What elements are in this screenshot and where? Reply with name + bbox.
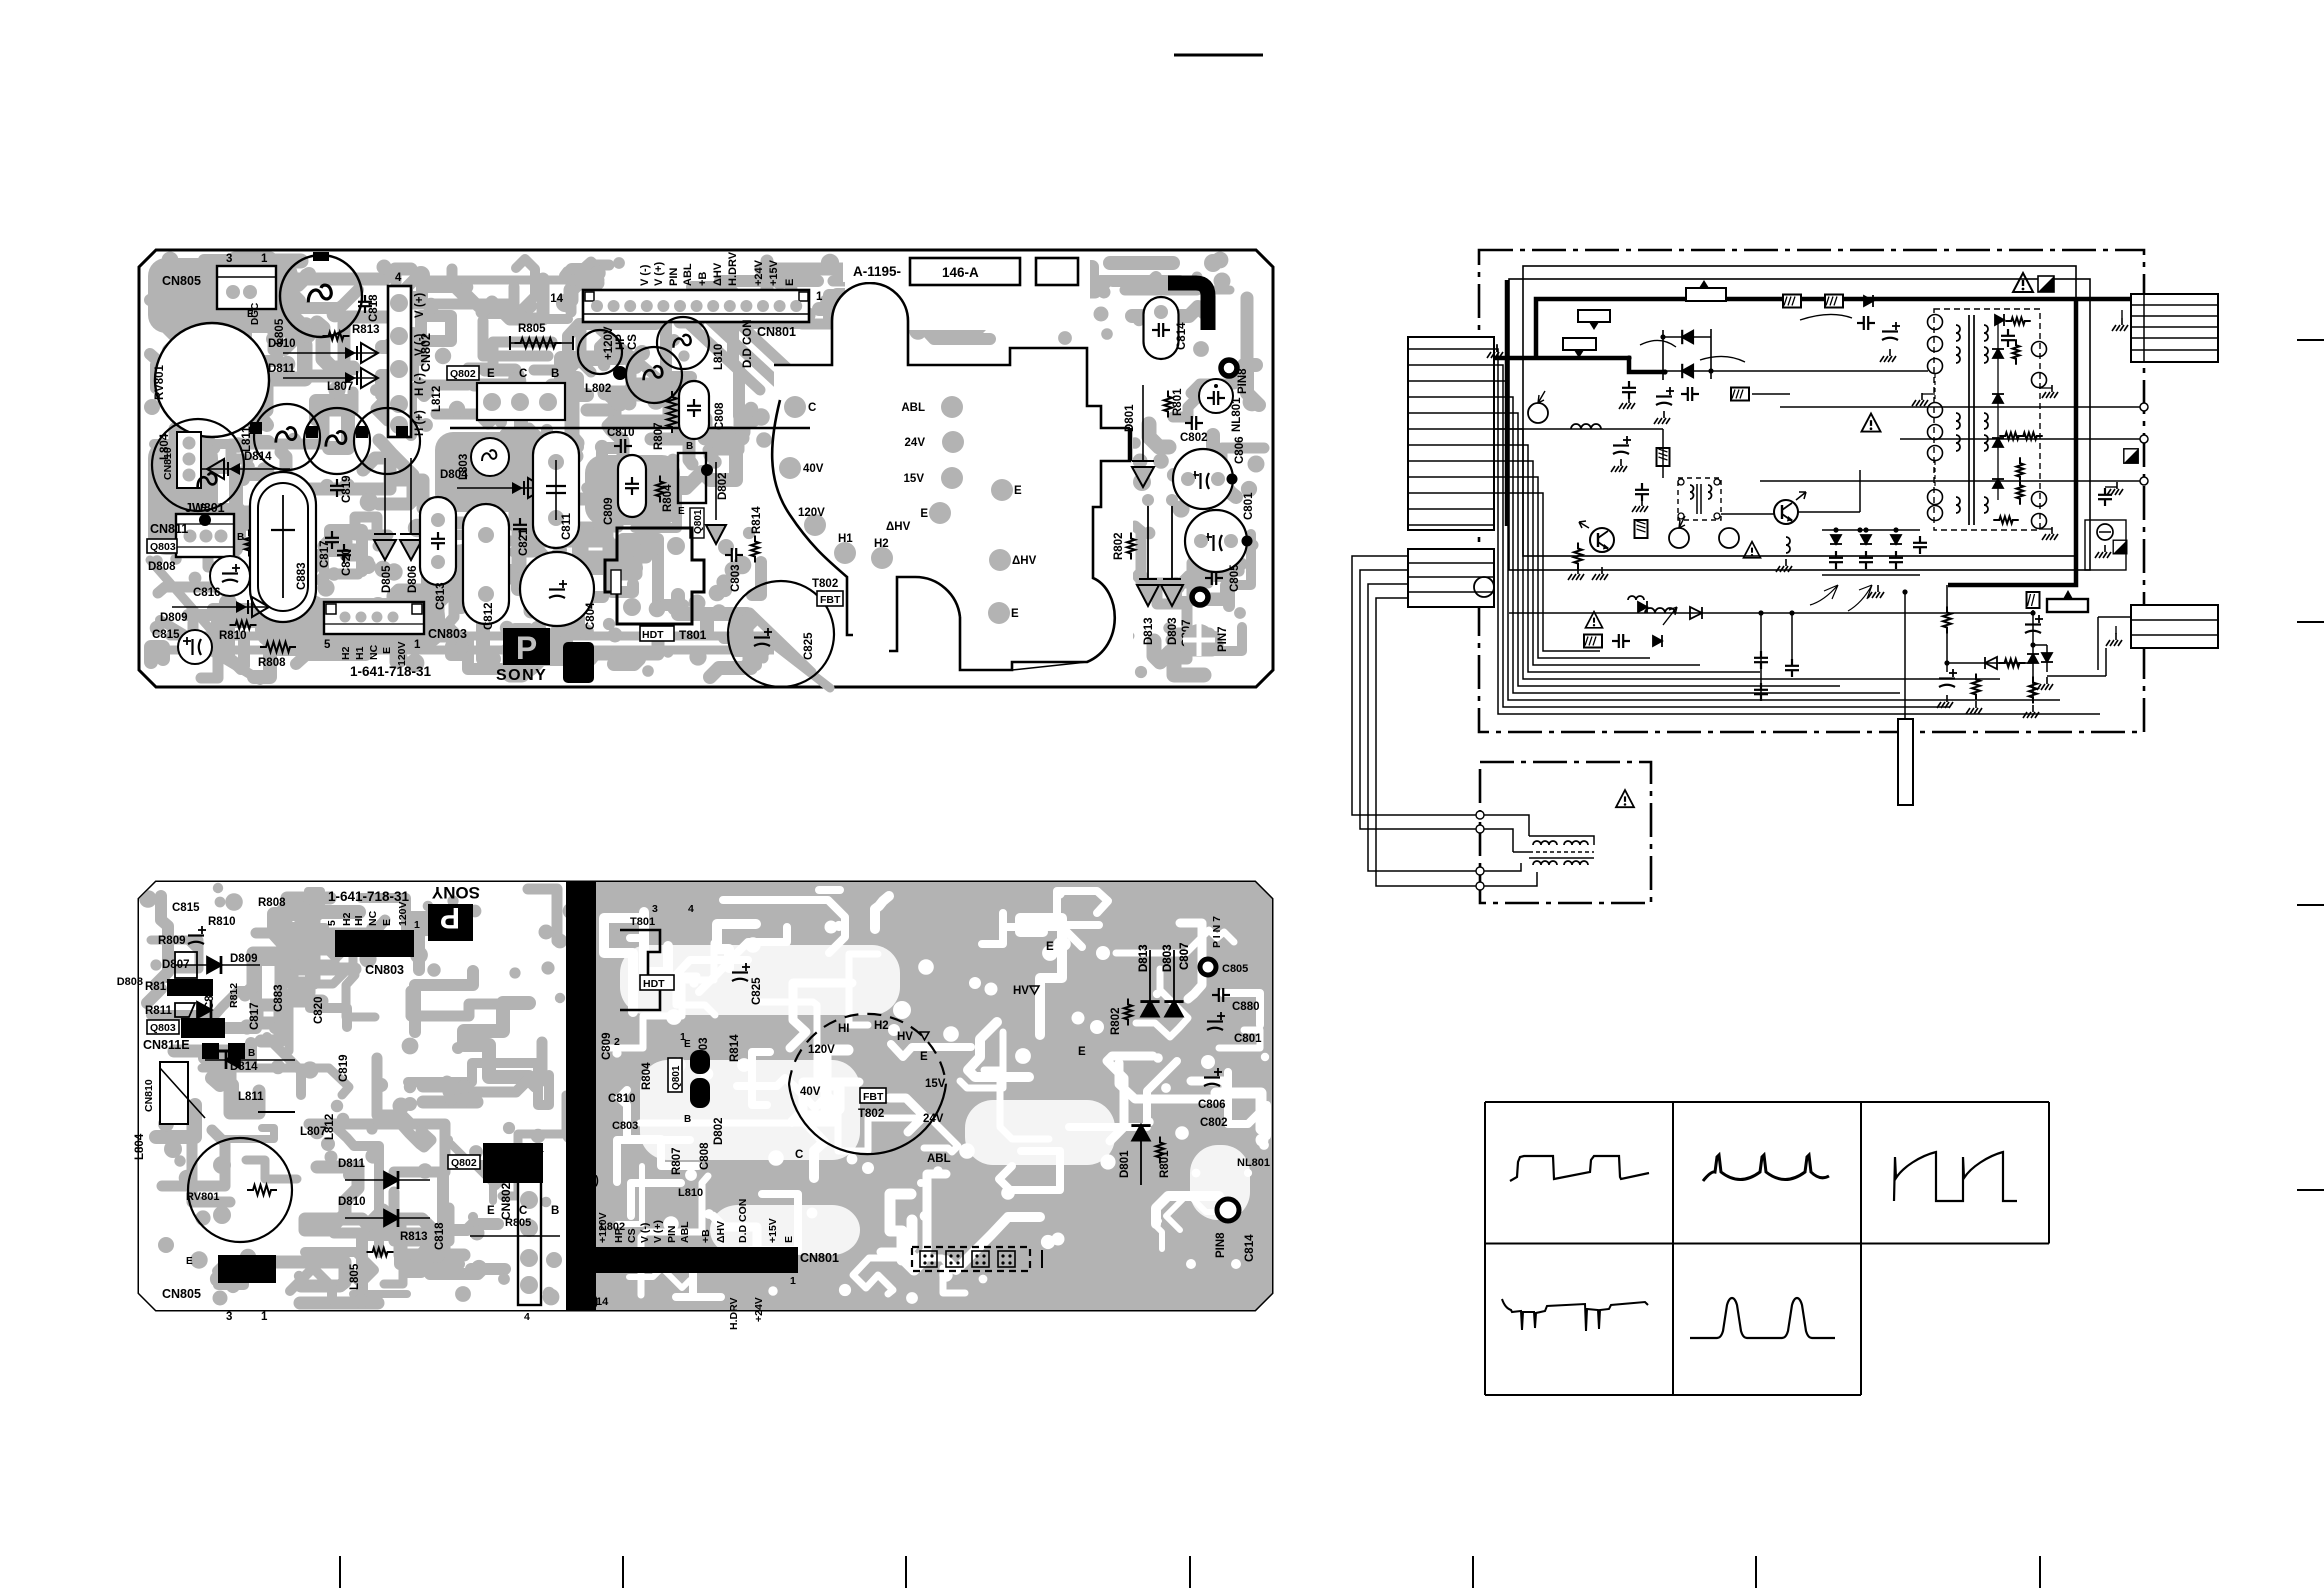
capacitor C802: [1185, 416, 1203, 430]
black isolation bar: [566, 882, 596, 1310]
svg-text:R802: R802: [1113, 533, 1125, 561]
svg-text:C806: C806: [1198, 1099, 1226, 1111]
svg-text:120V: 120V: [397, 901, 409, 926]
svg-text:R807: R807: [671, 1148, 683, 1176]
svg-text:120V: 120V: [808, 1044, 835, 1056]
svg-text:T801: T801: [679, 628, 707, 642]
schematic boundary (dash-dot): [1479, 250, 2144, 732]
svg-text:CN801: CN801: [757, 325, 796, 339]
svg-text:E: E: [920, 508, 928, 520]
warning triangles & service flags: [1862, 414, 1881, 432]
svg-text:C883: C883: [296, 563, 308, 591]
PIN7 eyelet: [1192, 589, 1208, 605]
resistor R807: [667, 391, 677, 433]
transformer T801 heat sink: [605, 528, 704, 624]
svg-text:D813: D813: [1143, 618, 1155, 646]
svg-text:B: B: [248, 1048, 255, 1059]
capacitor C809: [618, 455, 646, 517]
svg-text:C817: C817: [249, 1003, 261, 1031]
svg-text:C805: C805: [1229, 564, 1241, 592]
copper trace pattern: [144, 252, 1265, 680]
capacitor C816: [210, 556, 250, 596]
svg-text:C819: C819: [341, 476, 353, 504]
svg-text:CN811: CN811: [150, 522, 188, 536]
svg-text:HDT: HDT: [643, 978, 665, 990]
svg-text:120V: 120V: [396, 641, 408, 666]
CN805 mirrored: [218, 1255, 276, 1283]
svg-text:L802: L802: [600, 1221, 625, 1233]
svg-text:L807: L807: [327, 381, 353, 393]
svg-text:1: 1: [261, 253, 268, 265]
PCB board solder side: [139, 882, 1272, 1310]
svg-text:3: 3: [652, 903, 658, 915]
capacitor C806: [1173, 449, 1233, 509]
svg-text:C820: C820: [341, 549, 353, 577]
svg-text:C813: C813: [435, 583, 447, 611]
top registration line: [1174, 54, 1263, 57]
svg-text:ΔHV: ΔHV: [886, 521, 911, 533]
svg-text:C815: C815: [172, 902, 200, 914]
bridge diodes: [1663, 329, 1711, 380]
svg-text:CN810: CN810: [143, 1079, 155, 1112]
svg-text:D805: D805: [381, 565, 393, 593]
svg-text:NC: NC: [367, 910, 379, 926]
bottom registration ticks: [339, 1556, 341, 1588]
svg-text:C801: C801: [1234, 1033, 1262, 1045]
svg-text:R805: R805: [518, 323, 546, 335]
svg-text:Q801: Q801: [671, 1065, 682, 1090]
capacitor C804: [520, 552, 594, 626]
svg-text:5: 5: [326, 920, 338, 926]
svg-text:H (-): H (-): [414, 373, 426, 396]
svg-text:R814: R814: [751, 506, 763, 534]
svg-text:D803: D803: [1167, 618, 1179, 646]
connector CN803: [324, 602, 424, 634]
svg-text:V (-): V (-): [573, 1259, 596, 1271]
svg-text:4: 4: [524, 1311, 530, 1323]
svg-text:L812: L812: [324, 1114, 336, 1140]
svg-text:C802: C802: [1180, 432, 1208, 444]
svg-text:ΔHV: ΔHV: [1012, 555, 1037, 567]
svg-text:C808: C808: [714, 402, 726, 430]
capacitor C803: [725, 548, 743, 562]
resistor R808: [260, 642, 296, 652]
svg-text:D808: D808: [117, 976, 143, 988]
svg-text:D808: D808: [148, 561, 176, 573]
connector ladder 2: [1408, 549, 1494, 607]
waveform 4: flyback pulse (negative): [1502, 1299, 1648, 1331]
svg-text:C: C: [519, 368, 527, 380]
svg-text:FBT: FBT: [820, 594, 841, 606]
svg-text:D811: D811: [268, 363, 295, 375]
svg-text:C811: C811: [561, 513, 573, 540]
svg-text:HI: HI: [353, 915, 365, 926]
capacitor C821: [513, 518, 527, 536]
svg-text:C: C: [795, 1149, 803, 1161]
secondary windings & rectifiers: [1984, 325, 1988, 341]
svg-text:2: 2: [614, 1036, 620, 1048]
resistor R804: [656, 476, 664, 503]
B+ adjust block: [2063, 590, 2073, 599]
svg-text:CS: CS: [626, 1228, 638, 1243]
svg-text:24V: 24V: [905, 437, 926, 449]
svg-text:R808: R808: [258, 897, 286, 909]
svg-text:B: B: [684, 1114, 691, 1125]
svg-text:15V: 15V: [904, 473, 925, 485]
transistor Q801: [678, 453, 706, 503]
svg-text:E: E: [381, 919, 393, 926]
svg-text:R810: R810: [208, 916, 236, 928]
svg-text:H2: H2: [874, 1020, 889, 1032]
svg-text:CN803: CN803: [365, 963, 404, 977]
svg-text:V (+): V (+): [652, 1220, 664, 1243]
svg-text:E: E: [1046, 941, 1054, 953]
connector CN801: [583, 290, 809, 322]
svg-text:V (-): V (-): [414, 333, 426, 356]
svg-text:L804: L804: [134, 1133, 146, 1160]
svg-text:1: 1: [414, 639, 421, 651]
svg-text:R804: R804: [662, 484, 674, 512]
svg-text:+15V: +15V: [767, 1218, 779, 1243]
svg-text:D801: D801: [1119, 1150, 1131, 1178]
svg-text:146-A: 146-A: [942, 265, 979, 280]
svg-text:R805: R805: [505, 1217, 531, 1229]
svg-text:C810: C810: [607, 427, 635, 439]
svg-text:H2: H2: [340, 646, 352, 660]
black module: [563, 642, 594, 683]
resistor R805: [515, 338, 562, 348]
svg-text:L811: L811: [241, 426, 253, 452]
svg-text:E: E: [487, 368, 495, 380]
svg-text:+15V: +15V: [768, 259, 780, 286]
svg-text:CN802: CN802: [499, 1182, 513, 1220]
waveform table grid: [1485, 1102, 2049, 1395]
svg-text:NL801: NL801: [1231, 397, 1243, 432]
svg-text:L810: L810: [678, 1187, 703, 1199]
svg-text:C802: C802: [1200, 1117, 1228, 1129]
svg-text:C803: C803: [612, 1120, 638, 1132]
PIN8 eyelet: [1221, 360, 1237, 376]
coil L802: [626, 347, 682, 403]
svg-text:R802: R802: [1110, 1008, 1122, 1036]
PCB board A-1195-146-A component side: [139, 250, 1273, 687]
svg-text:ABL: ABL: [682, 263, 694, 286]
svg-text:C807: C807: [1179, 943, 1191, 971]
Sony P logo: [503, 628, 550, 665]
svg-text:C810: C810: [608, 1093, 636, 1105]
snubber top right: [1783, 295, 1801, 308]
svg-text:1: 1: [816, 291, 823, 303]
svg-text:Q802: Q802: [451, 1157, 477, 1169]
capacitor C814: [1144, 297, 1179, 359]
svg-text:C806: C806: [1234, 437, 1246, 465]
flyback transformer outline T802: [789, 1014, 946, 1084]
svg-text:40V: 40V: [803, 463, 824, 475]
CN802 mirrored: [518, 1160, 541, 1305]
deflection yoke connector bottom: [2131, 605, 2218, 648]
svg-text:C816: C816: [193, 587, 221, 599]
svg-text:A-1195-: A-1195-: [853, 264, 901, 279]
flyback transformer clearance area: [774, 283, 1133, 683]
capacitor C818: [358, 295, 372, 313]
svg-text:R814: R814: [729, 1034, 741, 1062]
capacitor C825: [728, 581, 834, 687]
svg-text:CS: CS: [627, 334, 639, 350]
svg-text:24V: 24V: [923, 1113, 944, 1125]
capacitor C811: [533, 432, 579, 548]
svg-text:L807: L807: [300, 1126, 326, 1138]
svg-text:E: E: [1014, 485, 1022, 497]
svg-text:E: E: [784, 279, 796, 286]
svg-text:P: P: [516, 630, 537, 666]
svg-text:4: 4: [688, 903, 694, 915]
svg-text:D802: D802: [713, 1118, 725, 1146]
svg-text:C804: C804: [585, 602, 597, 630]
board id A-1195-146-A: [843, 258, 909, 282]
svg-text:PIN8: PIN8: [1215, 1232, 1227, 1258]
copper pours: [148, 258, 298, 333]
connector CN811: [176, 514, 234, 557]
svg-text:R812: R812: [228, 983, 240, 1008]
black corner trace: [1168, 283, 1208, 330]
waveform 2: ripple with retrace spikes: [1703, 1155, 1829, 1181]
transistor Q803: [147, 539, 177, 553]
svg-text:NL801: NL801: [1237, 1157, 1270, 1169]
svg-text:D804: D804: [440, 469, 468, 481]
diode D802: [715, 462, 717, 520]
svg-text:H2: H2: [341, 912, 353, 926]
capacitors C817 C820 C819: [325, 531, 339, 549]
svg-text:C803: C803: [730, 565, 742, 593]
capacitor C801: [1185, 510, 1247, 572]
CRT socket connector top: [2131, 294, 2218, 362]
svg-text:B: B: [551, 1205, 559, 1217]
svg-text:P I N 7: P I N 7: [1211, 916, 1223, 948]
FBT area outline: [772, 283, 1130, 670]
FBT pin pads and labels: [784, 396, 806, 418]
right registration ticks: [2297, 339, 2324, 341]
svg-text:C: C: [808, 402, 816, 414]
svg-text:+B: +B: [700, 1229, 712, 1243]
svg-text:C825: C825: [751, 977, 763, 1005]
main bold B+ loop: [1493, 280, 2131, 585]
svg-text:CN803: CN803: [428, 627, 467, 641]
svg-text:120V: 120V: [798, 507, 825, 519]
svg-text:C880: C880: [1232, 1001, 1260, 1013]
svg-text:R809: R809: [158, 935, 186, 947]
svg-text:R807: R807: [653, 423, 665, 451]
capacitor C815: [178, 630, 212, 664]
svg-text:E: E: [381, 647, 393, 654]
connector CN810 / jumper JW801: [152, 419, 244, 511]
svg-text:D.D CON: D.D CON: [742, 319, 754, 368]
svg-text:D813: D813: [1138, 945, 1150, 973]
svg-text:C814: C814: [1176, 322, 1188, 350]
coil L803: [471, 438, 509, 476]
svg-text:RV801: RV801: [154, 364, 166, 400]
svg-text:R810: R810: [219, 630, 247, 642]
transistor Q802: [447, 366, 479, 380]
svg-text:PIN: PIN: [666, 1225, 678, 1243]
HV check probe: [2085, 520, 2126, 570]
svg-text:E: E: [783, 1236, 795, 1243]
svg-text:L805: L805: [349, 1263, 361, 1290]
resistor R801: [1164, 391, 1172, 418]
svg-text:15V: 15V: [925, 1078, 946, 1090]
dashed connector footprint: [912, 1247, 1030, 1271]
svg-text:+24V: +24V: [753, 259, 765, 286]
svg-text:D814: D814: [244, 451, 272, 463]
diode D806: [410, 458, 412, 533]
P logo mirrored: [428, 904, 473, 941]
svg-text:V (+): V (+): [653, 262, 665, 286]
svg-text:E: E: [1011, 608, 1019, 620]
svg-text:D810: D810: [338, 1196, 366, 1208]
svg-text:H1: H1: [838, 533, 853, 545]
svg-text:HI: HI: [838, 1023, 850, 1035]
svg-text:PIN8: PIN8: [1237, 368, 1249, 394]
svg-text:L802: L802: [585, 383, 611, 395]
solder side copper: [289, 947, 384, 956]
svg-text:3: 3: [226, 253, 232, 265]
svg-text:C817: C817: [319, 541, 331, 569]
C825: [732, 963, 750, 981]
svg-text:+24V: +24V: [753, 1297, 765, 1322]
svg-text:C808: C808: [699, 1142, 711, 1170]
HV lead: [1904, 592, 1906, 719]
svg-text:E: E: [684, 1039, 691, 1050]
connector ladder CN (to main board): [1408, 337, 1494, 530]
svg-text:C819: C819: [338, 1055, 350, 1083]
svg-text:C883: C883: [273, 985, 285, 1013]
waveform 5: vertical pulse: [1690, 1298, 1835, 1338]
svg-text:RV801: RV801: [186, 1191, 219, 1203]
svg-text:C821: C821: [518, 528, 530, 556]
capacitor C812: [463, 504, 509, 624]
svg-text:HV: HV: [897, 1031, 913, 1043]
svg-text:Q803: Q803: [150, 1022, 176, 1034]
svg-text:Q801: Q801: [693, 509, 704, 534]
coil L805: [280, 255, 362, 337]
svg-text:R811: R811: [145, 1005, 172, 1017]
diode D805: [384, 458, 386, 533]
hot/cold isolation boxes: [1523, 266, 2076, 556]
svg-text:R801: R801: [1172, 388, 1184, 416]
svg-text:5: 5: [324, 639, 331, 651]
drive transformer: [1678, 478, 1721, 520]
T801 outline mirrored: [620, 930, 660, 1010]
svg-text:R813: R813: [400, 1231, 428, 1243]
svg-text:H.DRV: H.DRV: [728, 1298, 740, 1330]
svg-text:L812: L812: [431, 386, 443, 412]
filter choke: [1571, 424, 1601, 429]
svg-text:C825: C825: [803, 632, 815, 660]
svg-text:D.D CON: D.D CON: [737, 1199, 749, 1243]
svg-text:PIN: PIN: [668, 268, 680, 286]
svg-text:R804: R804: [641, 1062, 653, 1090]
svg-text:B: B: [686, 441, 693, 452]
svg-text:T802: T802: [858, 1108, 884, 1120]
posistor / degauss relay cluster: [1509, 612, 2033, 614]
svg-text:CN810: CN810: [162, 447, 174, 480]
resistor R813: [323, 332, 350, 340]
svg-text:ABL: ABL: [679, 1221, 691, 1243]
Q802 mirrored: [448, 1155, 480, 1169]
svg-text:1-641-718-31: 1-641-718-31: [350, 664, 432, 679]
fuse / relay boxes: [1686, 288, 1726, 301]
svg-text:B: B: [237, 532, 244, 543]
Q801 black: [690, 1050, 710, 1074]
svg-text:C812: C812: [483, 603, 495, 631]
svg-text:ΔHV: ΔHV: [715, 1221, 727, 1243]
svg-text:Q802: Q802: [450, 368, 476, 380]
svg-text:D809: D809: [160, 612, 188, 624]
degauss coil box: [1480, 762, 1651, 903]
svg-text:D802: D802: [717, 473, 729, 501]
capacitor C883: [250, 472, 316, 622]
caps near bridge: [1622, 381, 1636, 399]
svg-text:D810: D810: [268, 338, 296, 350]
svg-text:L810: L810: [713, 344, 725, 370]
svg-text:3: 3: [226, 1311, 232, 1323]
degauss harness: [1352, 556, 1480, 886]
svg-text:14: 14: [550, 293, 563, 305]
RV801: [188, 1138, 292, 1242]
svg-text:NC: NC: [368, 644, 380, 660]
junction dots: [1626, 355, 1631, 360]
svg-text:L811: L811: [238, 1091, 264, 1103]
connector CN805: [217, 266, 276, 309]
CN810 area: [160, 1062, 188, 1124]
svg-text:C814: C814: [1244, 1234, 1256, 1262]
svg-text:1: 1: [261, 1311, 268, 1323]
svg-text:ΔHV: ΔHV: [712, 262, 724, 286]
coils L811/L804 assembly: [254, 404, 320, 470]
resistor R814: [751, 536, 759, 563]
svg-text:T801: T801: [630, 916, 655, 928]
CN801 black bar: [594, 1247, 798, 1273]
capacitor C813: [420, 497, 456, 585]
potentiometer RV801: [155, 323, 269, 437]
resistor R802: [1127, 533, 1135, 560]
svg-text:R808: R808: [258, 657, 286, 669]
svg-text:SONY: SONY: [496, 667, 547, 684]
mounting pad: [1183, 624, 1215, 656]
svg-text:P: P: [440, 901, 460, 934]
svg-text:D801: D801: [1124, 404, 1136, 432]
resistor R812: [245, 530, 253, 557]
svg-text:HV: HV: [1013, 985, 1029, 997]
svg-text:E: E: [678, 506, 685, 517]
coil L810: [657, 317, 709, 369]
resistor R810: [230, 621, 257, 629]
svg-text:T802: T802: [812, 578, 838, 590]
diodes D813 D803: [1147, 505, 1149, 578]
svg-text:FBT: FBT: [863, 1091, 884, 1103]
svg-text:C818: C818: [434, 1222, 446, 1250]
harness wires: [1494, 349, 2100, 714]
svg-text:C805: C805: [1222, 963, 1248, 975]
svg-text:C818: C818: [368, 294, 380, 322]
svg-text:H1: H1: [354, 646, 366, 660]
svg-text:C809: C809: [601, 1033, 613, 1061]
svg-text:ABL: ABL: [901, 402, 925, 414]
neon lamp NL801: [1199, 379, 1233, 413]
svg-text:CN805: CN805: [162, 274, 201, 288]
svg-text:E: E: [200, 503, 207, 514]
svg-text:+B: +B: [697, 272, 709, 286]
svg-text:D811: D811: [338, 1158, 365, 1170]
